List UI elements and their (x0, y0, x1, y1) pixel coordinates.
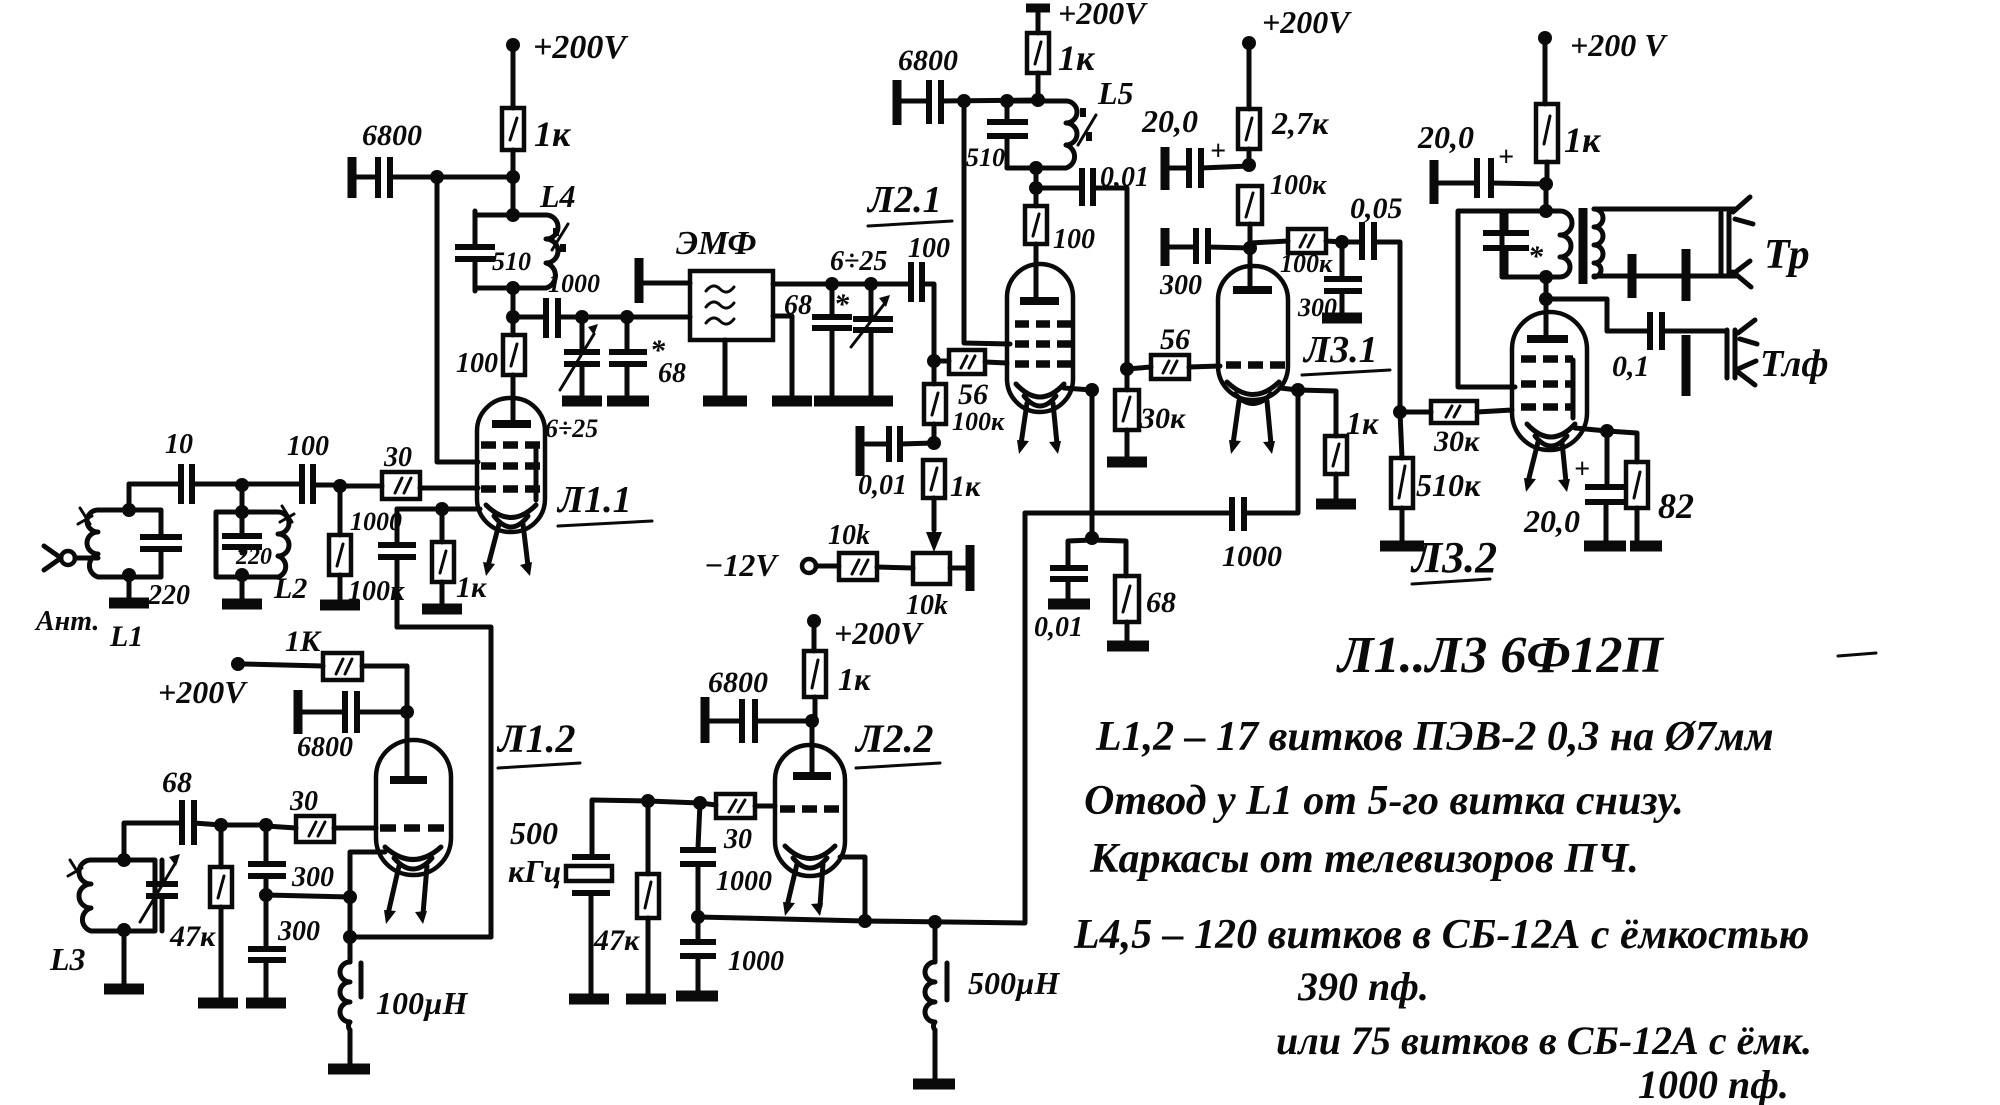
label L2.2 (854, 716, 940, 768)
wire L1.1 grid3 (420, 486, 478, 491)
svg-text:1000: 1000 (548, 269, 600, 298)
node +200V supply L3.1 (1242, 4, 1352, 109)
capacitor 300 (L3.1 anode bypass) (1159, 228, 1250, 301)
svg-text:+200V: +200V (834, 615, 924, 651)
svg-text:L3: L3 (49, 941, 86, 977)
node +200V supply L1.1 (506, 29, 628, 66)
resistor 1k (L3.1 cathode) (1316, 405, 1379, 504)
svg-text:0,05: 0,05 (1350, 192, 1403, 225)
svg-text:500µН: 500µН (968, 965, 1060, 1001)
svg-text:кГц: кГц (508, 853, 561, 889)
capacitor 20,0 (decoupling L3.2) (1417, 119, 1546, 204)
svg-text:*: * (834, 288, 850, 321)
label L1.1 (556, 479, 652, 526)
terminal bar Tlf (1682, 335, 1691, 396)
capacitor 68 (L3 coupling) (124, 766, 221, 860)
resistor 100k (L1.1 grid leak) (320, 486, 405, 607)
svg-text:30: 30 (289, 786, 318, 817)
wire L2.2 cathode (840, 857, 872, 928)
svg-text:Отвод у L1 от 5-го витка снизу: Отвод у L1 от 5-го витка снизу. (1084, 778, 1684, 824)
jack Tlf (1727, 320, 1829, 385)
svg-text:L1: L1 (109, 620, 143, 653)
wire to L1.2 anode (405, 712, 410, 779)
node +200V supply L2.2 (807, 614, 924, 651)
wire to EMF input (575, 310, 690, 324)
wire L3.1 anode (1248, 248, 1253, 290)
svg-text:510: 510 (966, 143, 1005, 172)
output transformer primary tank (1483, 211, 1572, 284)
trimmer capacitor 6:25 (L1.1 out) (545, 317, 602, 443)
resistor 100k (L3.1 anode) (1238, 170, 1327, 255)
ground L1 (109, 577, 190, 653)
resistor 510k (L3.2 grid leak) (1380, 412, 1481, 546)
svg-text:+200 V: +200 V (1570, 27, 1668, 63)
node +200V supply L2.1 (1026, 0, 1148, 33)
svg-text:30к: 30к (1139, 402, 1186, 435)
tube L2.2 triode (775, 745, 845, 916)
resistor 10k left (828, 520, 913, 580)
tube L1.1 pentode (477, 398, 545, 576)
svg-text:220: 220 (147, 580, 190, 611)
inductor 100uH (328, 937, 468, 1069)
svg-text:L4,5 – 120 витков в СБ-12А с ё: L4,5 – 120 витков в СБ-12А с ёмкостью (1073, 912, 1809, 958)
svg-text:Л1..Л3 6Ф12П: Л1..Л3 6Ф12П (1336, 627, 1665, 684)
wire cathode row L1.2 (266, 890, 357, 904)
wire 6800 node to L2.1 grid2 (964, 101, 1010, 344)
capacitor 300 (coupling bypass) (1297, 242, 1362, 322)
svg-text:100: 100 (287, 431, 329, 462)
coil L3 tank (49, 853, 180, 977)
capacitor 100 (input chain) (242, 431, 340, 504)
capacitor 1000 lower (L2.2) (676, 917, 784, 996)
ground EMF right-lower (772, 316, 812, 401)
svg-text:20,0: 20,0 (1141, 103, 1198, 139)
svg-text:82: 82 (1658, 486, 1694, 526)
tube L1.2 triode (376, 740, 451, 924)
wire L3.1 cathode (1280, 388, 1336, 436)
resistor 1K (L1.2 anode) (285, 625, 407, 712)
svg-text:2,7к: 2,7к (1271, 105, 1329, 141)
wire L1.1 cathode node (397, 502, 480, 516)
resistor 1k (L1.1 anode) (502, 108, 571, 154)
svg-text:30: 30 (383, 442, 412, 473)
node L2.1 grid network (927, 354, 941, 368)
svg-text:10k: 10k (828, 520, 870, 551)
resistor 30 (L1.2 grid) (266, 786, 376, 842)
wire screen L3.2 (1458, 211, 1515, 387)
svg-text:Ант.: Ант. (34, 606, 99, 637)
svg-text:+200V: +200V (1262, 4, 1352, 40)
svg-text:+200V: +200V (1058, 0, 1148, 31)
svg-text:1000: 1000 (728, 946, 784, 977)
ground L3 (104, 931, 144, 989)
resistor 1k (L2.2 anode) (804, 651, 871, 728)
svg-text:1000: 1000 (716, 866, 772, 897)
label L2.1 (866, 179, 952, 226)
wire node to L4 (506, 177, 520, 222)
resistor 82 (L3.2 cathode) (1607, 431, 1694, 546)
svg-text:100µН: 100µН (376, 985, 468, 1021)
wire R1k to node (430, 150, 520, 184)
svg-text:0,1: 0,1 (1612, 350, 1650, 383)
capacitor 0,05 (1342, 192, 1403, 412)
tube L3.2 pentode (1512, 312, 1587, 492)
capacitor *68 (EMF out) (784, 284, 854, 401)
svg-text:100к: 100к (1280, 249, 1333, 278)
svg-text:+: + (1498, 142, 1514, 173)
capacitor 6800 (L2.1) (897, 44, 1038, 125)
svg-text:510: 510 (492, 247, 531, 276)
capacitor 6800 (L1.2) (297, 690, 414, 763)
svg-text:1000 пф.: 1000 пф. (1638, 1062, 1789, 1105)
capacitor 680D (L2.2) (705, 666, 812, 743)
svg-text:1к: 1к (950, 470, 981, 503)
svg-text:−12V: −12V (704, 547, 779, 583)
wire anode node to 0,1 (1539, 277, 1607, 338)
svg-text:100: 100 (908, 233, 950, 264)
svg-text:Тлф: Тлф (1760, 343, 1829, 385)
coil L4 tank (455, 178, 576, 291)
resistor 30 (L1.1 grid) (333, 442, 420, 499)
label tube types (1336, 627, 1876, 684)
svg-text:+200V: +200V (158, 674, 248, 710)
svg-text:220: 220 (235, 544, 272, 570)
svg-text:100: 100 (1053, 224, 1095, 255)
svg-text:0,01: 0,01 (858, 470, 907, 501)
svg-text:20,0: 20,0 (1417, 119, 1474, 155)
ground EMF center (703, 340, 747, 401)
svg-text:100: 100 (456, 348, 498, 379)
resistor 100k horizontal (to 0,05) (1250, 229, 1349, 278)
wire grid row L2.2 (592, 794, 700, 856)
wire grid node row (214, 818, 273, 832)
wire secondary top (1594, 207, 1736, 212)
resistor 10k right (906, 545, 970, 621)
svg-text:68: 68 (162, 766, 192, 799)
inductor 500uH (913, 922, 1060, 1084)
capacitor 300 lower (L1.2) (246, 895, 320, 1003)
svg-text:47к: 47к (169, 920, 216, 953)
svg-text:Каркасы от телевизоров ПЧ.: Каркасы от телевизоров ПЧ. (1089, 836, 1639, 882)
svg-text:1к: 1к (838, 661, 871, 697)
node L4 bottom (506, 281, 520, 324)
svg-text:510к: 510к (1416, 467, 1481, 503)
wire cathode bus y513 (1025, 513, 1232, 921)
svg-text:30к: 30к (1433, 425, 1480, 458)
resistor 100 (L2.1 anode) (1025, 206, 1095, 301)
capacitor 0,01 (L5 to L3.1) (1036, 162, 1149, 369)
capacitor 20,0 (L3.2 cathode) (1523, 431, 1627, 546)
svg-text:100к: 100к (1270, 170, 1327, 201)
svg-text:1к: 1к (456, 571, 487, 604)
transformer secondary (1594, 209, 1603, 277)
svg-text:0,01: 0,01 (1100, 162, 1149, 193)
capacitor 0,1 (1607, 312, 1727, 383)
resistor 1k (L2.1 anode supply) (1027, 33, 1095, 107)
note line 2 (1084, 778, 1684, 824)
node L2 top (235, 478, 249, 512)
svg-text:Л1.1: Л1.1 (556, 479, 632, 521)
tube L2.1 pentode (1007, 264, 1073, 454)
capacitor 1000 (L1.1 cathode) (350, 507, 416, 627)
svg-text:56: 56 (1160, 323, 1190, 356)
tube L3.1 triode (1218, 266, 1288, 454)
wire L2.2 anode (810, 721, 815, 775)
note line 6 (1276, 1018, 1812, 1063)
svg-text:1000: 1000 (1222, 540, 1282, 573)
wire L3.2 cathode (1575, 424, 1614, 438)
node +200V supply L1.2 (158, 657, 323, 710)
capacitor 100 (to L2.1 grid) (908, 233, 950, 361)
wire secondary bottom (1594, 274, 1736, 279)
svg-text:1000: 1000 (350, 507, 402, 536)
resistor 56 (L3.1 grid) (1127, 323, 1220, 379)
capacitor 10 (antenna coupling) (129, 429, 242, 504)
svg-text:68: 68 (1146, 586, 1176, 619)
svg-text:68: 68 (658, 358, 686, 389)
label L1.2 (496, 716, 580, 768)
resistor 100 (L1.1 anode stub) (456, 317, 525, 424)
node L5 bottom (1029, 161, 1043, 206)
svg-text:1к: 1к (1346, 405, 1379, 441)
resistor 100k (L2.1 grid leak) (924, 361, 1005, 450)
node -12V terminal (704, 547, 839, 583)
resistor 2,7k (1238, 105, 1329, 172)
svg-text:30: 30 (723, 824, 752, 855)
svg-text:Л1.2: Л1.2 (496, 716, 575, 761)
svg-text:+200V: +200V (533, 29, 628, 66)
resistor 1k (L1.1 cathode) (422, 509, 487, 609)
resistor 47k (L2.2 grid leak) (593, 801, 666, 999)
resistor 68 (L2.1 cathode) (1092, 540, 1176, 646)
svg-text:L1,2 – 17 витков ПЭВ-2 0,3 на: L1,2 – 17 витков ПЭВ-2 0,3 на Ø7мм (1095, 714, 1774, 760)
jack Tr (1721, 197, 1810, 287)
note line 5 (1297, 964, 1429, 1009)
wire to output tank (1539, 184, 1553, 218)
wire L2.1 cathode down (1064, 383, 1099, 545)
wire L1.2 cathode (343, 852, 385, 944)
svg-text:390 пф.: 390 пф. (1297, 964, 1429, 1009)
capacitor 0,01 (AGC) (858, 426, 934, 501)
svg-text:300: 300 (1297, 293, 1337, 322)
node +200V supply L3.2 (1538, 27, 1668, 104)
svg-text:6800: 6800 (898, 44, 958, 77)
terminal bar secondary 2 (1682, 249, 1691, 301)
capacitor 20,0 (decoupling L3.1) (1141, 103, 1249, 190)
capacitor 0,01 (L2.1 cathode) (1034, 540, 1092, 643)
wire cathode bus L2 (698, 915, 1025, 929)
transformer core (1579, 208, 1588, 284)
terminal bar secondary 1 (1628, 254, 1637, 298)
svg-text:1к: 1к (1564, 120, 1601, 160)
capacitor *68 (L1.1 out) (607, 317, 686, 401)
trimmer capacitor 6:25 (EMF out) (830, 246, 893, 401)
capacitor 1000 (cathode coupling to L3.1) (1222, 383, 1305, 573)
svg-text:*: * (1528, 240, 1544, 273)
svg-text:300: 300 (291, 862, 334, 893)
resistor 30k (L2.1 screen) (1107, 362, 1186, 462)
svg-text:300: 300 (277, 916, 320, 947)
note line 7 (1638, 1062, 1789, 1105)
capacitor 1000 upper (L2.2) (680, 803, 772, 924)
svg-text:1К: 1К (285, 625, 322, 658)
svg-text:10: 10 (165, 429, 193, 460)
svg-text:ЭМФ: ЭМФ (676, 225, 757, 262)
svg-text:1к: 1к (1058, 38, 1095, 78)
svg-text:0,01: 0,01 (1034, 612, 1083, 643)
resistor 30 (L2.2 grid) (693, 794, 775, 855)
svg-text:или 75 витков в СБ-12А с ёмк.: или 75 витков в СБ-12А с ёмк. (1276, 1018, 1812, 1063)
capacitor 6800 (L1.1) (352, 119, 437, 198)
resistor 47k (L1.2 grid leak) (169, 825, 238, 1003)
svg-text:20,0: 20,0 (1523, 503, 1580, 539)
svg-text:+: + (1210, 136, 1226, 167)
svg-text:Л2.2: Л2.2 (854, 716, 933, 761)
wire EMF output (773, 277, 911, 291)
antenna terminal (34, 546, 99, 637)
wire cathode bus to feedback (350, 935, 491, 940)
svg-text:500: 500 (510, 815, 558, 851)
svg-text:L4: L4 (539, 178, 576, 214)
svg-text:100к: 100к (952, 407, 1005, 436)
svg-text:6800: 6800 (708, 666, 768, 699)
crystal 500kHz (508, 815, 612, 999)
EMF filter block (676, 225, 773, 340)
svg-text:300: 300 (1159, 270, 1202, 301)
label L3.2 (1410, 533, 1497, 584)
svg-text:+: + (1574, 454, 1590, 485)
note line 1 (1095, 714, 1774, 760)
svg-text:47к: 47к (593, 924, 640, 957)
svg-text:6800: 6800 (362, 119, 422, 152)
svg-text:6÷25: 6÷25 (545, 414, 598, 443)
wire +200V to R1k (511, 50, 516, 108)
svg-text:6÷25: 6÷25 (830, 246, 887, 277)
ground L2 (222, 572, 307, 605)
resistor 1k (to -12V) (923, 460, 981, 552)
wire 6800 node to L1.1 grid2 (437, 177, 478, 462)
svg-text:6800: 6800 (297, 732, 353, 763)
capacitor 1000 (L4 coupling) (513, 269, 600, 338)
resistor 30k (L3.2 grid) (1393, 401, 1512, 458)
svg-text:Л3.1: Л3.1 (1302, 329, 1378, 371)
svg-text:Л2.1: Л2.1 (866, 179, 942, 221)
svg-text:L2: L2 (273, 572, 307, 605)
svg-text:68: 68 (784, 290, 812, 321)
resistor 56 (L2.1 grid) (934, 350, 1007, 411)
svg-text:Тр: Тр (1764, 232, 1810, 278)
capacitor 300 upper (L1.2) (248, 825, 334, 902)
coil L2 tank (216, 505, 294, 582)
coil L1 input tank (78, 484, 182, 582)
EMF input terminal bar (639, 258, 690, 303)
svg-text:L5: L5 (1097, 75, 1134, 111)
svg-text:1к: 1к (534, 114, 571, 154)
note line 4 (1073, 912, 1809, 958)
note line 3 (1089, 836, 1639, 882)
coil L5 tank (966, 75, 1134, 172)
wire cathode feedback to L1.2 stage (397, 627, 491, 937)
resistor 1k (L3.2 anode supply) (1536, 104, 1601, 191)
label L3.1 (1302, 329, 1390, 375)
svg-text:Л3.2: Л3.2 (1410, 533, 1497, 582)
